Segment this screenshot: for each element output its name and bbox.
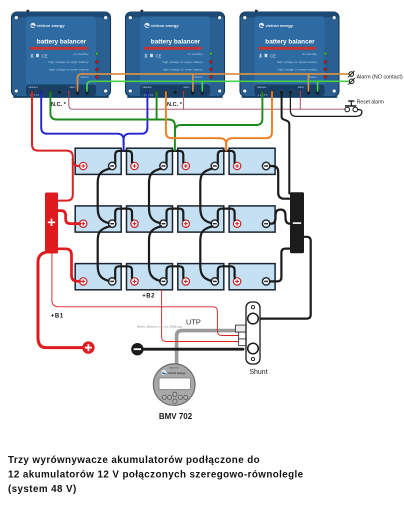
svg-text:batteries: batteries: [29, 86, 39, 89]
wire +B2 sense to shunt: [162, 290, 239, 342]
wire reset alarm loop U3 t4: [290, 94, 362, 117]
battery B4: [229, 148, 275, 174]
wire busbar positive to row3 B9 positive: [58, 249, 80, 281]
wire alarm green U1 to alarm contact: [87, 81, 349, 91]
svg-text:+B2: +B2: [142, 294, 155, 300]
wire green U2 t2 riser to junction j2: [156, 94, 158, 119]
svg-text:high voltage on upper battery: high voltage on upper battery: [277, 60, 318, 64]
wire red branch to busbar positive: [58, 159, 73, 201]
battery B3: [178, 148, 224, 174]
svg-text:on standby: on standby: [187, 52, 203, 56]
svg-text:battery balancer: battery balancer: [37, 39, 87, 46]
svg-text:alarm: alarm: [298, 86, 304, 89]
svg-text:+B1: +B1: [51, 314, 64, 320]
wire green U3 t1 to junction j2: [175, 94, 263, 137]
wire series link row2 B7-B8: [218, 209, 235, 221]
battery B8: [229, 206, 275, 232]
shunt: [235, 302, 260, 364]
wire alarm green stub U3: [317, 81, 319, 91]
wire series link row3 B11-B12: [218, 266, 235, 278]
svg-text:high voltage on lower battery: high voltage on lower battery: [163, 68, 203, 72]
wire busbar positive to row2 B5 positive: [58, 211, 80, 224]
wire orange U3 t2 to junction j3: [226, 94, 272, 149]
battery B11: [178, 264, 224, 290]
svg-text:Alarm: Alarm: [309, 75, 318, 79]
alarm NO contact terminals: [348, 71, 355, 85]
wire junction tie col3 row2-row3: [200, 226, 212, 280]
battery balancer U2: [126, 10, 225, 98]
wire N.C. chain U1 to reset contact: [69, 94, 345, 110]
wire black U3 t3 to busbar negative: [282, 94, 290, 194]
wire N.C. riser U3: [299, 94, 301, 110]
wire junction tie col3 row1-row2: [200, 169, 212, 224]
svg-text:high voltage on lower battery: high voltage on lower battery: [277, 68, 317, 72]
wire row3 B12 minus to busbar negative: [270, 249, 290, 282]
wire series link row3 B9-B10: [115, 266, 132, 278]
battery B1: [75, 148, 121, 174]
battery B6: [127, 206, 173, 232]
wire N.C. riser U2: [183, 94, 185, 110]
svg-text:batteries: batteries: [257, 86, 267, 89]
svg-text:Shunt: Shunt: [249, 369, 267, 376]
wire row2 B8 minus to busbar negative: [270, 210, 290, 224]
svg-text:UTP: UTP: [186, 318, 201, 327]
svg-text:alarm: alarm: [184, 86, 190, 89]
wire blue U1 t2 to junction j1: [41, 94, 123, 151]
svg-text:victron energy: victron energy: [168, 371, 186, 375]
wire green U1 t3 to junction j2: [50, 94, 174, 151]
svg-text:N.C. *: N.C. *: [167, 102, 183, 108]
battery B5: [75, 206, 121, 232]
svg-text:victron energy: victron energy: [151, 23, 179, 28]
svg-text:Reset alarm: Reset alarm: [357, 100, 384, 106]
wire series link row2 B5-B6: [115, 209, 132, 221]
svg-text:high voltage on lower battery: high voltage on lower battery: [49, 68, 89, 72]
svg-text:battery balancer: battery balancer: [151, 39, 201, 46]
svg-text:Alarm: Alarm: [194, 75, 203, 79]
svg-text:victron energy: victron energy: [266, 23, 294, 28]
svg-text:batteries: batteries: [143, 86, 153, 89]
wire alarm orange U1 to alarm contact: [78, 74, 350, 91]
wire orange U2 t3 to junction j3: [166, 94, 226, 151]
svg-text:on standby: on standby: [73, 52, 89, 56]
meter BMV 702: [153, 364, 195, 406]
terminal system minus: [131, 343, 143, 355]
svg-text:high voltage on upper battery: high voltage on upper battery: [48, 60, 89, 64]
wire alarm orange stub U2: [192, 74, 194, 91]
svg-text:on standby: on standby: [302, 52, 318, 56]
wire system minus to shunt bottom bolt: [144, 348, 243, 351]
wire alarm green stub U2: [201, 81, 203, 91]
wire blue U2 t1 to junction j1: [124, 94, 148, 146]
wire series link row2 B6-B7: [167, 209, 184, 221]
battery B9: [75, 264, 121, 290]
wire red U1 t1 to B1 positive: [32, 94, 80, 167]
svg-text:high voltage on upper battery: high voltage on upper battery: [162, 60, 203, 64]
battery B10: [127, 264, 173, 290]
pushbutton reset alarm: [345, 100, 358, 111]
svg-text:CE: CE: [270, 53, 276, 58]
battery balancer U1: [12, 10, 111, 98]
wire UTP cable BMV to shunt: [177, 331, 236, 365]
busbar negative: [290, 192, 304, 253]
battery balancer U3: [240, 10, 339, 98]
svg-text:battery balancer: battery balancer: [265, 39, 315, 46]
wire junction tie col2 row2-row3: [149, 226, 161, 280]
caption text: [8, 455, 304, 495]
battery B12: [229, 264, 275, 290]
svg-text:(system 48 V): (system 48 V): [8, 484, 77, 495]
svg-text:12 akumulatorów 12 V połączony: 12 akumulatorów 12 V połączonych szerego…: [8, 470, 304, 481]
wire series link row1 B1-B2: [115, 151, 132, 163]
wire series link row1 B3-B4: [218, 151, 235, 163]
wire busbar positive to system plus terminal: [38, 252, 83, 348]
svg-text:alarm: alarm: [70, 86, 76, 89]
wire busbar negative to shunt top bolt: [259, 237, 311, 319]
wire alarm orange stub U3: [307, 74, 309, 91]
svg-text:N.C. *: N.C. *: [51, 102, 67, 108]
wire junction tie col1 row1-row2: [98, 169, 110, 224]
wire series link row1 B2-B3: [167, 151, 184, 163]
battery B2: [127, 148, 173, 174]
wire junction tie col2 row1-row2: [149, 169, 161, 224]
wire junction tie col1 row2-row3: [98, 226, 110, 280]
wire series link row3 B10-B11: [167, 266, 184, 278]
svg-text:BMV-702: BMV-702: [170, 368, 180, 370]
svg-text:Alarm (NO contact): Alarm (NO contact): [357, 74, 403, 80]
terminal system plus: [82, 341, 94, 353]
battery B7: [178, 206, 224, 232]
svg-text:victron energy: victron energy: [37, 23, 65, 28]
wire +B1 sense to shunt: [52, 254, 239, 336]
svg-text:CE: CE: [156, 53, 162, 58]
svg-text:Trzy wyrównywacze akumulatorów: Trzy wyrównywacze akumulatorów podłączon…: [8, 455, 260, 466]
svg-text:BMV 702: BMV 702: [159, 412, 193, 421]
wire row1 B4 minus to busbar negative: [270, 166, 290, 199]
svg-text:Battery_Balancer_top_rys_300dp: Battery_Balancer_top_rys_300dpi.jpg: [137, 325, 182, 329]
busbar positive: [45, 193, 58, 254]
svg-text:Alarm: Alarm: [80, 75, 89, 79]
svg-text:CE: CE: [42, 53, 48, 58]
